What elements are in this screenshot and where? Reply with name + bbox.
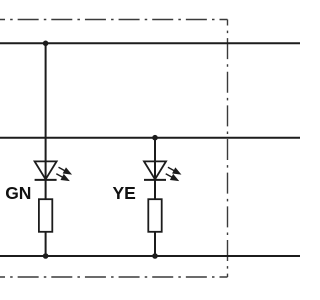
LED YE: cathode bar: [144, 179, 166, 181]
LED YE: emission arrow 1: [166, 164, 183, 177]
LED GN: diode triangle: [35, 161, 57, 179]
bus wire: top supply line: [0, 42, 300, 44]
wire: GN branch upper segment: [45, 43, 47, 199]
LED GN: emission arrow 1: [57, 164, 74, 177]
wire: YE branch lower segment: [154, 232, 156, 256]
node: YE branch to bottom bus: [152, 253, 158, 259]
resistor R2 (YE branch): [148, 199, 161, 232]
enclosure dash-dot outline: top edge: [0, 19, 228, 21]
LED GN: cathode bar: [35, 179, 57, 181]
enclosure dash-dot outline: right edge: [227, 20, 229, 278]
LED YE: emission arrow 2: [164, 171, 181, 184]
bus wire: bottom line: [0, 255, 300, 257]
LED YE: diode triangle: [144, 161, 166, 179]
node: GN branch to bottom bus: [43, 253, 49, 259]
LED GN: emission arrow 2: [55, 171, 72, 184]
enclosure dash-dot outline: bottom edge: [0, 276, 228, 278]
node: GN branch to top bus: [43, 41, 49, 47]
bus wire: middle line: [0, 137, 300, 139]
resistor R1 (GN branch): [39, 199, 52, 232]
wire: GN branch lower segment: [45, 232, 47, 256]
node: YE branch to middle bus: [152, 135, 158, 141]
svg-text:GN: GN: [5, 183, 31, 203]
wire: YE branch upper segment: [154, 138, 156, 200]
svg-text:YE: YE: [113, 183, 136, 203]
